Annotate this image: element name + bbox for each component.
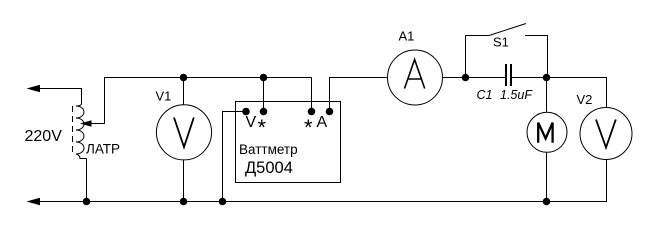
terminal *(voltage) of wattmeter [260, 108, 268, 116]
voltmeter V1 [156, 105, 211, 160]
junction node A1 / S1 / C1 [462, 74, 470, 82]
wire: C1 right plate to node [511, 77, 547, 79]
svg-text:V2: V2 [577, 92, 593, 107]
ammeter A1 [388, 50, 443, 105]
svg-text:V: V [246, 114, 257, 131]
wire: rail corner down to current * terminal [311, 78, 313, 112]
wire: A1 output to node [443, 77, 506, 79]
terminal *(current) of wattmeter [308, 108, 316, 116]
junction M bottom [543, 198, 551, 206]
node: 220V supply lower terminal arrow + bottom rail wire [27, 198, 607, 205]
wire: node to V2 top [547, 78, 607, 108]
svg-text:V1: V1 [156, 89, 172, 104]
svg-text:C1: C1 [477, 88, 493, 102]
ЛАТР core dashed line [72, 106, 74, 154]
wire: wattmeter A terminal up and to ammeter A1 [330, 78, 388, 112]
terminal A of wattmeter [326, 108, 334, 116]
svg-text:S1: S1 [493, 35, 509, 50]
ЛАТР wiper tap arrow [80, 120, 105, 127]
svg-text:Ваттметр: Ваттметр [239, 142, 298, 157]
svg-text:A: A [317, 114, 328, 131]
wire: top rail [104, 77, 312, 79]
switch S1 [466, 24, 548, 78]
wire: V1 top branch [183, 78, 185, 106]
autotransformer ЛАТР winding [76, 104, 87, 159]
svg-text:A1: A1 [399, 29, 415, 44]
terminal V of wattmeter [242, 108, 250, 116]
svg-text:1.5uF: 1.5uF [500, 88, 533, 102]
svg-text:*: * [258, 115, 267, 140]
wire: bottom lead of ЛАТР to bottom rail [86, 159, 88, 202]
wire: upper lead into ЛАТР top [81, 89, 83, 104]
junction V1 bottom [180, 198, 188, 206]
wire: tap riser to top rail [104, 77, 106, 124]
wattmeter U1 box Ваттметр Д5004 [236, 102, 341, 183]
wire: node down to motor M [546, 78, 548, 113]
svg-text:220V: 220V [25, 128, 63, 145]
junction at ЛАТР bottom [83, 198, 91, 206]
motor M [527, 112, 567, 152]
voltmeter V2 [580, 108, 632, 160]
wire: wattmeter V terminal to bottom rail [223, 112, 247, 202]
junction node C1 / S1 / M / V2 [543, 74, 551, 82]
wire: V1 bottom branch [183, 160, 185, 202]
wire: wattmeter voltage * branch up to rail [263, 78, 265, 112]
node: 220V supply upper terminal arrow [27, 85, 83, 92]
svg-text:*: * [304, 115, 313, 140]
wire: M bottom to rail [546, 152, 548, 201]
wire: V2 bottom to rail corner [606, 160, 608, 203]
junction node V1 top [180, 74, 188, 82]
svg-text:Д5004: Д5004 [245, 159, 293, 177]
svg-text:ЛАТР: ЛАТР [86, 142, 120, 157]
capacitor C1 [506, 64, 511, 86]
junction wattmeter V branch at bottom rail [219, 198, 227, 206]
junction node wattmeter voltage * [260, 74, 268, 82]
